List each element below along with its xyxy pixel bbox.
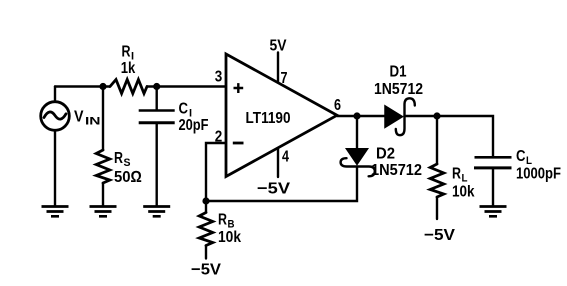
svg-text:5V: 5V bbox=[270, 38, 287, 55]
svg-text:R: R bbox=[114, 150, 123, 167]
svg-text:6: 6 bbox=[334, 97, 341, 114]
svg-text:1k: 1k bbox=[121, 60, 136, 77]
svg-text:3: 3 bbox=[215, 69, 223, 86]
svg-text:−5V: −5V bbox=[424, 227, 455, 244]
svg-text:IN: IN bbox=[85, 116, 101, 128]
svg-text:1N5712: 1N5712 bbox=[371, 162, 422, 179]
svg-text:20pF: 20pF bbox=[179, 117, 209, 134]
svg-text:4: 4 bbox=[282, 149, 289, 166]
svg-text:R: R bbox=[218, 212, 227, 229]
svg-text:S: S bbox=[124, 157, 131, 169]
svg-text:−5V: −5V bbox=[257, 181, 290, 198]
svg-text:−5V: −5V bbox=[191, 262, 221, 279]
svg-text:D2: D2 bbox=[376, 146, 395, 163]
svg-text:R: R bbox=[122, 44, 131, 61]
svg-text:C: C bbox=[516, 148, 526, 165]
svg-text:7: 7 bbox=[281, 70, 288, 87]
svg-text:50Ω: 50Ω bbox=[114, 169, 142, 186]
svg-text:LT1190: LT1190 bbox=[246, 110, 291, 127]
svg-text:10k: 10k bbox=[218, 229, 241, 246]
svg-text:1N5712: 1N5712 bbox=[374, 81, 423, 98]
svg-text:1000pF: 1000pF bbox=[516, 166, 561, 183]
svg-text:2: 2 bbox=[215, 129, 223, 146]
svg-text:V: V bbox=[74, 109, 84, 126]
svg-text:10k: 10k bbox=[452, 184, 475, 201]
svg-text:R: R bbox=[452, 166, 461, 183]
svg-text:C: C bbox=[179, 101, 189, 118]
svg-text:D1: D1 bbox=[390, 64, 407, 81]
